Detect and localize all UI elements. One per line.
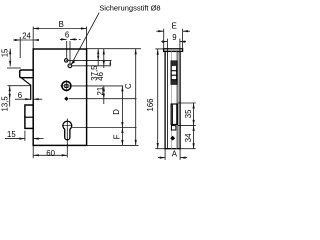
svg-text:B: B bbox=[59, 20, 64, 29]
svg-text:9: 9 bbox=[172, 33, 176, 42]
svg-text:15: 15 bbox=[7, 130, 16, 139]
svg-text:15: 15 bbox=[1, 48, 10, 57]
svg-text:166: 166 bbox=[146, 98, 155, 111]
svg-text:21: 21 bbox=[96, 87, 105, 96]
svg-text:46: 46 bbox=[96, 72, 105, 81]
svg-text:35: 35 bbox=[184, 109, 193, 118]
svg-text:A: A bbox=[172, 149, 178, 158]
svg-text:6: 6 bbox=[18, 91, 22, 100]
svg-text:24: 24 bbox=[22, 31, 31, 40]
svg-text:60: 60 bbox=[46, 149, 55, 158]
svg-text:D: D bbox=[112, 109, 121, 115]
svg-text:E: E bbox=[172, 21, 177, 30]
svg-text:6: 6 bbox=[65, 31, 69, 40]
svg-text:34: 34 bbox=[184, 133, 193, 142]
svg-text:F: F bbox=[112, 134, 121, 139]
svg-text:13,5: 13,5 bbox=[0, 96, 9, 112]
svg-text:C: C bbox=[124, 83, 133, 89]
svg-text:Sicherungsstift Ø8: Sicherungsstift Ø8 bbox=[99, 3, 160, 12]
